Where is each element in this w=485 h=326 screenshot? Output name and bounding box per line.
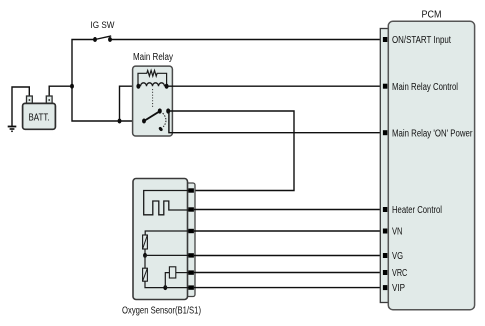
wire: sensor pin 2 to PCM Heater Control	[194, 209, 384, 211]
oxygen sensor pin 5	[188, 270, 194, 274]
wire: second cell bottom to node D	[145, 281, 165, 287]
svg-text:Main Relay Control: Main Relay Control	[392, 82, 458, 93]
PCM pin VIP	[383, 285, 387, 290]
wire: relay switch output to oxygen sensor pin 1 (heater supply)	[168, 111, 294, 191]
oxygen sensor body	[133, 179, 188, 300]
svg-text:ON/START Input: ON/START Input	[392, 35, 451, 46]
heater element (square wave)	[144, 191, 191, 215]
wire: node D up to trim resistor	[165, 273, 169, 288]
relay coil terminal right dot	[165, 84, 169, 89]
wire: node C to pin 4	[145, 254, 191, 256]
node D junction dot	[163, 285, 167, 290]
switch IG SW contact left	[93, 37, 97, 42]
relay armature link (dotted)	[152, 89, 154, 109]
relay switch common contact	[142, 119, 146, 124]
svg-text:Oxygen Sensor(B1/S1): Oxygen Sensor(B1/S1)	[122, 306, 201, 317]
svg-text:VG: VG	[392, 251, 403, 262]
wire: node B up to relay coil left terminal	[120, 86, 140, 121]
node B junction dot (feed to relay coil)	[118, 119, 122, 124]
wire: sensor pin 3 to PCM VN	[194, 230, 384, 232]
node C junction dot	[143, 253, 147, 258]
svg-text:VRC: VRC	[392, 268, 407, 279]
PCM pin VG	[383, 253, 387, 258]
svg-text:Heater Control: Heater Control	[392, 205, 442, 216]
wire: node D to pin 6	[165, 287, 190, 289]
switch IG SW contact right	[108, 37, 112, 42]
wire: sensor pin 5 to PCM VRC	[194, 272, 384, 274]
wire: IG SW output to PCM ON/START Input	[110, 39, 384, 41]
resistor (relay parallel resistor)	[138, 71, 167, 87]
wire: battery positive terminal to node A	[49, 86, 72, 96]
svg-text:VIP: VIP	[392, 283, 405, 294]
svg-text:BATT.: BATT.	[29, 113, 50, 124]
PCM pin VN	[383, 229, 387, 234]
svg-text:Main Relay 'ON' Power: Main Relay 'ON' Power	[392, 128, 473, 139]
resistor (sensor trim)	[169, 267, 175, 278]
wire: node C down to second cell	[144, 255, 146, 268]
oxygen sensor connector strip	[186, 183, 195, 297]
PCM pin ON/START Input	[383, 37, 387, 42]
wire: IG SW feed from node A up and to switch	[72, 40, 143, 122]
wire: sensing cell bottom to node C	[144, 249, 146, 255]
oxygen sensor pin 3	[188, 229, 194, 233]
PCM pin VRC	[383, 270, 387, 275]
wire: sensor pin 4 to PCM VG	[194, 255, 384, 257]
PCM U1 body	[388, 21, 474, 309]
wire: relay coil right terminal to PCM Main Relay Control	[167, 85, 384, 87]
wire: relay switch output down to PCM Main Relay 'ON' Power	[169, 111, 384, 133]
relay switch travel arc (dashed)	[163, 113, 166, 127]
relay switch arm	[144, 111, 160, 121]
relay switch upper contact dot	[158, 108, 162, 113]
oxygen sensor pin 6	[188, 285, 194, 289]
sensing cell element (box with diagonal)	[143, 235, 148, 249]
oxygen sensor pin 2	[188, 207, 194, 211]
PCM pin Heater Control	[383, 207, 387, 212]
PCM connector strip	[380, 29, 388, 303]
wire: sensor pin 6 to PCM VIP	[194, 287, 384, 289]
svg-text:Main Relay: Main Relay	[133, 52, 173, 63]
svg-text:VN: VN	[392, 227, 403, 238]
oxygen sensor pin 1	[188, 188, 194, 192]
inductor (relay coil)	[141, 83, 165, 86]
wire: battery negative terminal to ground	[12, 87, 29, 126]
relay switch lower contact (arrowhead)	[158, 126, 163, 132]
switch IG SW arm	[95, 36, 111, 40]
svg-text:PCM: PCM	[422, 10, 442, 21]
node A junction dot	[70, 84, 74, 89]
relay coil terminal left dot	[136, 84, 140, 89]
wire: trim resistor to pin 5	[176, 272, 191, 274]
second cell element (box with diagonal)	[143, 268, 148, 281]
relay switch output junction dot	[166, 108, 170, 113]
svg-text:IG SW: IG SW	[91, 20, 115, 30]
PCM pin Main Relay 'ON' Power	[383, 130, 387, 135]
oxygen sensor pin 4	[188, 253, 194, 257]
relay Main Relay box	[133, 66, 173, 136]
PCM pin Main Relay Control	[383, 84, 387, 89]
sensing cell wire from pin 3	[145, 231, 190, 235]
battery BATT.	[23, 96, 56, 129]
ground	[8, 127, 17, 132]
